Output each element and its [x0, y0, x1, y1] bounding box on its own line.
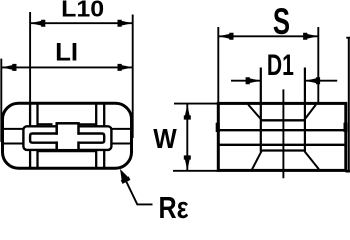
svg-text:W: W [153, 123, 177, 154]
dimension D1 line right segment [305, 80, 337, 82]
dimension W arrow top [184, 104, 191, 119]
edge bar right [344, 123, 348, 132]
shelf line top-right [79, 123, 97, 125]
side groove line full bottom [218, 144, 345, 146]
groove bottom line bottom [261, 149, 305, 151]
side groove stub right top [111, 128, 132, 130]
side groove stub left bottom [3, 143, 25, 145]
dimension L10 arrow left [30, 20, 45, 27]
side groove stub right bottom [111, 143, 132, 145]
feature line left B (x=37.5) [36, 104, 38, 168]
feature line right A (x=104.2) [103, 104, 105, 168]
slot band interior passing through boss [31, 135, 103, 142]
svg-text:D1: D1 [267, 49, 294, 82]
groove chamfer diagonal bottom-left [252, 151, 262, 170]
cropped neighbour figure: top stub [346, 37, 350, 39]
dimension L10 arrow right [118, 20, 133, 27]
leader arrow for corner radius [116, 167, 130, 184]
dimension L10/LI extension line right [132, 15, 134, 139]
groove chamfer diagonal top-left [248, 105, 261, 120]
groove chamfer diagonal bottom-right [305, 151, 319, 169]
slot outer contour [23, 126, 111, 150]
dimension D1 arrow right [305, 77, 320, 84]
dimension S line [218, 35, 318, 37]
slot inner contour left C [30, 134, 57, 143]
dimension LI extension line left [0, 59, 2, 142]
dimension W arrow bottom [184, 155, 191, 170]
svg-text:L10: L10 [61, 0, 104, 22]
cropped neighbour figure: vertical line at right edge [348, 37, 350, 173]
centerline vertical [282, 89, 284, 178]
side groove line full top [218, 129, 345, 131]
dimension S extension line right [317, 27, 319, 104]
dimension L10 line [30, 22, 133, 24]
shelf line top-left [38, 123, 53, 125]
feature line left A (x=30.1) [29, 104, 31, 168]
dimension S arrow right [303, 33, 318, 40]
leader line [126, 181, 153, 204]
slot inner contour right C [78, 134, 105, 143]
cropped neighbour figure: bottom stub [346, 170, 350, 173]
dimension LI arrow right [118, 64, 133, 71]
groove bottom line top [261, 119, 305, 121]
feature line right B (x=96.2) [95, 104, 97, 168]
hole silhouette line left (D1 extension) [260, 68, 262, 152]
svg-text:LI: LI [55, 39, 78, 67]
svg-text:Rε: Rε [159, 191, 189, 222]
dimension S extension line left [217, 27, 219, 103]
shelf line bottom [38, 150, 97, 152]
dimension W line [186, 104, 188, 170]
center boss rectangle [57, 123, 79, 150]
dimension D1 line left segment [231, 80, 261, 82]
side groove stub left top [3, 128, 25, 130]
dimension S arrow left [218, 33, 233, 40]
dimension L10 extension line left [29, 12, 31, 104]
dimension LI line [1, 66, 132, 68]
dimension LI arrow left [1, 64, 16, 71]
edge bar left [216, 123, 220, 132]
insert body outline (side view, right) [218, 103, 345, 170]
svg-text:S: S [273, 0, 290, 42]
insert body outline (top view, left) [3, 103, 132, 168]
dimension W extension line top [174, 103, 218, 105]
dimension D1 arrow left [246, 77, 261, 84]
dimension W extension line bottom [173, 170, 218, 172]
hole silhouette line right (D1 extension) [304, 68, 306, 152]
groove chamfer diagonal top-right [305, 105, 316, 120]
